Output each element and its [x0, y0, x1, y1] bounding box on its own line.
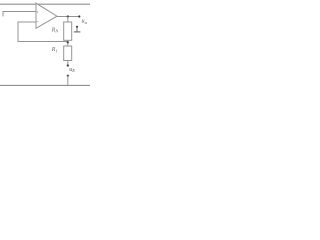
- node: input terminal upper: [67, 64, 69, 66]
- wire: inverting input / feedback loop: [18, 22, 68, 42]
- node: output terminal: [78, 15, 80, 17]
- wire: noninverting input with left stub: [3, 12, 36, 17]
- wire: lower terminal to bottom rail: [67, 76, 69, 86]
- node: input terminal lower: [67, 75, 69, 77]
- resistor R_N body: [64, 22, 72, 40]
- wire: output: [57, 16, 79, 18]
- op-amp minus sign: [37, 21, 39, 23]
- bottom rule: [0, 84, 90, 86]
- background: [0, 0, 90, 90]
- node: output junction: [67, 15, 69, 17]
- svg-text:R1: R1: [51, 47, 58, 53]
- op-amp plus sign: [37, 11, 39, 13]
- svg-text:RN: RN: [51, 27, 59, 33]
- wire: output node to R_N: [67, 17, 69, 23]
- wire: divider junction: [67, 40, 69, 46]
- ground terminal dot under u_a: [76, 26, 78, 28]
- wire: R_1 to input terminal: [67, 61, 69, 66]
- resistor R_1 body: [64, 46, 72, 61]
- ground stem: [76, 27, 78, 32]
- node: divider junction: [67, 41, 69, 43]
- top rule: [0, 3, 90, 5]
- ground bar: [74, 31, 81, 33]
- op-amp U1: [36, 3, 57, 28]
